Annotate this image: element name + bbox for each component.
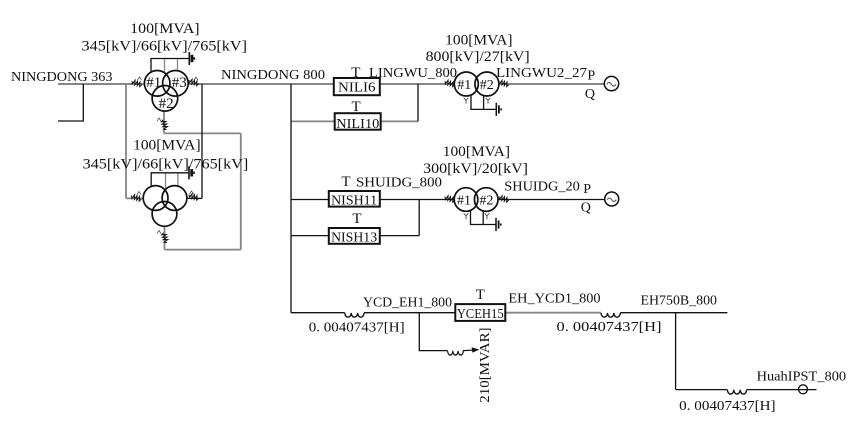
inductor HuahIPST <box>727 390 746 394</box>
wire NILI10 row left <box>291 120 335 122</box>
svg-text:T: T <box>476 287 485 303</box>
wire EH750B bus <box>620 312 727 314</box>
leader tick under T label <box>354 78 356 80</box>
svg-text:T: T <box>352 211 361 227</box>
caret T2 left <box>137 192 141 195</box>
ground T1 hat <box>189 52 194 65</box>
svg-text:100[MVA]: 100[MVA] <box>443 144 510 160</box>
caret T2 right <box>190 191 194 194</box>
svg-text:NILI10: NILI10 <box>336 117 379 132</box>
transformer T1 winding #1 <box>144 71 170 97</box>
transformer T2 winding left <box>143 186 168 211</box>
zigzag LW right <box>498 79 509 87</box>
wye mark LW #1 <box>464 98 469 104</box>
svg-text:0. 00407437[H]: 0. 00407437[H] <box>309 321 405 336</box>
wire T1 hat right drop <box>177 59 179 72</box>
caret T2 bottom <box>157 231 161 234</box>
wire main vertical x291 <box>290 84 292 313</box>
terminal circle HuahIPST <box>799 385 808 394</box>
zigzag T1 right <box>188 78 199 86</box>
svg-text:#1: #1 <box>457 78 471 93</box>
generator LINGWU2 circle <box>604 76 618 90</box>
bus NINGDONG 363 <box>58 83 145 85</box>
ground SH <box>496 218 501 231</box>
zigzag SH right <box>498 195 509 203</box>
zigzag T1 bottom <box>158 118 171 132</box>
caret T1 right <box>194 77 198 80</box>
svg-text:100[MVA]: 100[MVA] <box>130 21 199 37</box>
transformer SH winding #2 <box>474 188 498 212</box>
svg-text:#2: #2 <box>479 194 493 209</box>
transformer T2 winding bottom <box>152 202 177 227</box>
svg-text:NINGDONG 363: NINGDONG 363 <box>11 70 113 85</box>
box NILI10 <box>335 113 381 130</box>
box NISH13 <box>329 228 380 244</box>
zigzag T2 left <box>131 194 142 202</box>
transformer T1 winding #3 <box>163 71 189 97</box>
ground T2 hat <box>189 166 194 179</box>
box YCEH15 <box>455 304 505 321</box>
svg-text:0. 00407437[H]: 0. 00407437[H] <box>679 399 775 414</box>
caret T1 left <box>138 77 142 80</box>
svg-text:#2: #2 <box>480 78 494 93</box>
wire T2 hat middle drop <box>165 173 167 188</box>
zigzag T1 left <box>131 79 142 87</box>
wire T1 hat <box>151 59 189 72</box>
svg-text:NINGDONG 800: NINGDONG 800 <box>221 68 325 83</box>
inductor EH_YCD1 <box>601 313 620 317</box>
arrow MVAR <box>463 349 473 351</box>
svg-text:EH_YCD1_800: EH_YCD1_800 <box>508 292 600 307</box>
wire T2 hat right drop <box>177 173 179 187</box>
svg-text:T: T <box>352 99 361 115</box>
svg-text:YCD_EH1_800: YCD_EH1_800 <box>363 295 452 310</box>
wire vertical x202 <box>201 84 203 198</box>
wire T2 right lead <box>187 197 202 199</box>
wire NISH11 row right <box>380 199 454 201</box>
wire vertical x126 <box>125 84 127 198</box>
svg-text:SHUIDG_800: SHUIDG_800 <box>356 176 442 191</box>
wire T1 hat middle drop <box>164 59 166 74</box>
svg-text:300[kV]/20[kV]: 300[kV]/20[kV] <box>423 161 528 177</box>
wire NISH11 row left <box>291 199 328 201</box>
inductor MVAR <box>448 351 464 355</box>
svg-text:P: P <box>583 182 591 197</box>
svg-text:800[kV]/27[kV]: 800[kV]/27[kV] <box>426 49 530 65</box>
svg-text:SHUIDG_20: SHUIDG_20 <box>504 180 580 195</box>
zigzag T2 right <box>188 193 199 201</box>
wire bottom row left of coil <box>291 312 345 314</box>
wire T2 left lead <box>126 197 144 199</box>
svg-text:Q: Q <box>581 201 591 216</box>
wire EH_YCD1 gray segment <box>505 312 601 314</box>
wire bottom row coil to YCEH15 <box>364 312 455 314</box>
wire tertiary loop right vertical <box>240 133 242 249</box>
wire SHUIDG_20 bus <box>498 199 605 201</box>
wire NILI10 riser x418 <box>417 84 419 121</box>
svg-text:NISH11: NISH11 <box>331 194 377 209</box>
svg-text:LINGWU_800: LINGWU_800 <box>369 66 457 81</box>
wire NILI10 row right <box>381 120 418 122</box>
svg-text:345[kV]/66[kV]/765[kV]: 345[kV]/66[kV]/765[kV] <box>83 157 249 173</box>
wire EH750B drop x675.6 <box>675 313 677 390</box>
inductor YCD_EH1 <box>345 313 364 317</box>
svg-text:Q: Q <box>585 87 595 102</box>
svg-text:100[MVA]: 100[MVA] <box>133 137 201 153</box>
svg-text:#3: #3 <box>172 75 187 91</box>
svg-text:YCEH15: YCEH15 <box>457 307 504 322</box>
generator SHUIDG2 tilde <box>607 198 616 202</box>
svg-text:T: T <box>341 174 350 190</box>
bus NINGDONG 800 right segment <box>380 83 455 85</box>
transformer LW winding #2 <box>475 72 499 96</box>
bus NINGDONG 800 left segment <box>188 83 334 85</box>
wire T2 hat <box>151 173 189 187</box>
transformer T1 winding #2 <box>152 86 178 112</box>
wire tertiary loop horizontal <box>164 132 241 134</box>
zigzag SH left <box>444 195 455 203</box>
wire stub below N363 bus <box>58 84 83 121</box>
wire HuahIPST row right <box>747 389 817 391</box>
wire NISH13 riser x419 <box>418 200 420 236</box>
wire tertiary loop bottom horizontal <box>165 249 241 251</box>
svg-text:#1: #1 <box>457 194 471 209</box>
ground LW <box>496 103 501 116</box>
wye mark LW #2 <box>486 98 491 104</box>
zigzag LW left <box>444 79 455 87</box>
svg-text:P: P <box>587 68 595 83</box>
generator LINGWU2 tilde <box>607 83 616 87</box>
transformer T2 winding right <box>162 186 187 211</box>
box NILI6 <box>334 78 380 95</box>
wye mark SH #2 <box>485 213 490 219</box>
wire MVAR branch <box>419 313 447 351</box>
wire NISH13 row left <box>291 235 328 237</box>
wire HuahIPST row left <box>676 389 728 391</box>
svg-text:#2: #2 <box>159 96 174 112</box>
generator SHUIDG2 circle <box>605 192 619 206</box>
svg-text:LINGWU2_27: LINGWU2_27 <box>496 66 587 81</box>
transformer SH winding #1 <box>454 188 478 212</box>
svg-text:#1: #1 <box>146 75 161 91</box>
box NISH11 <box>329 191 380 207</box>
svg-text:HuahIPST_800: HuahIPST_800 <box>757 370 847 385</box>
svg-text:210[MVAR]: 210[MVAR] <box>478 328 493 403</box>
wire LW neutral drop 2 <box>483 96 485 110</box>
svg-text:0. 00407437[H]: 0. 00407437[H] <box>557 320 662 335</box>
wire SH neutral drop 2 <box>482 211 484 225</box>
wire LW neutral drop 1 <box>471 96 496 110</box>
wire T2 tertiary lead <box>164 226 166 250</box>
svg-text:EH750B_800: EH750B_800 <box>641 293 718 308</box>
wye mark SH #1 <box>464 213 469 219</box>
transformer LW winding #1 <box>454 72 478 96</box>
svg-text:100[MVA]: 100[MVA] <box>445 33 512 49</box>
wire tertiary loop T1 bottom lead <box>163 111 165 134</box>
svg-text:345[kV]/66[kV]/765[kV]: 345[kV]/66[kV]/765[kV] <box>82 38 248 54</box>
svg-text:NILI6: NILI6 <box>338 81 376 96</box>
svg-text:NISH13: NISH13 <box>331 230 377 245</box>
wire NISH13 row right <box>380 235 419 237</box>
zigzag T2 bottom <box>158 231 171 245</box>
wire LINGWU2_27 bus <box>498 83 604 85</box>
wire SH neutral drop 1 <box>471 211 497 225</box>
caret T1 bottom <box>157 118 161 121</box>
